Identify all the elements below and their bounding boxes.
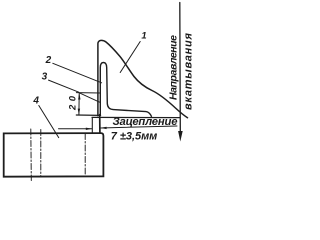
svg-text:7 ±3,5мм: 7 ±3,5мм [111,130,158,142]
leader line for label 3 second segment [80,93,101,103]
leader line for label 2 [53,63,102,83]
vertical arrow line (direction of rolling-in) [179,3,182,132]
rail profile claw outline (item 1) [98,40,188,117]
dimension 20: up arrowhead [78,93,80,100]
engagement dimension: right extension line below ground [99,115,101,133]
engagement dimension: right arrowhead pointing left [100,127,106,129]
centerline A [30,129,33,181]
engagement dimension: leader line under text [100,126,177,128]
centerline C [84,134,86,177]
centerline B [40,130,42,177]
engagement dimension: left extension line below ground [91,118,93,133]
svg-text:20: 20 [68,95,79,111]
leader line for label 4 [39,106,59,138]
svg-text:3: 3 [42,71,48,82]
dimension 20: down arrowhead [78,109,80,116]
angle bracket (items 2,3) outer contour [100,63,151,117]
svg-text:вкатывания: вкатывания [182,32,194,110]
dimension 20: vertical dimension line [78,94,80,115]
part 4 rectangle [4,133,104,177]
ground line left segment [76,114,100,116]
svg-text:Зацепление: Зацепление [113,116,178,128]
svg-text:1: 1 [141,31,146,42]
svg-text:Направление: Направление [167,35,179,100]
leader line for label 3 [49,80,79,92]
svg-text:4: 4 [32,96,39,107]
engagement dimension: left arrow line [59,128,92,130]
svg-text:2: 2 [45,55,52,66]
engagement dimension: left arrowhead pointing right [86,128,92,130]
ground line right segment [92,116,180,118]
down arrowhead of direction arrow [178,131,183,142]
dimension 20: top extension line [76,92,100,94]
leader line for label 1 [120,42,140,73]
